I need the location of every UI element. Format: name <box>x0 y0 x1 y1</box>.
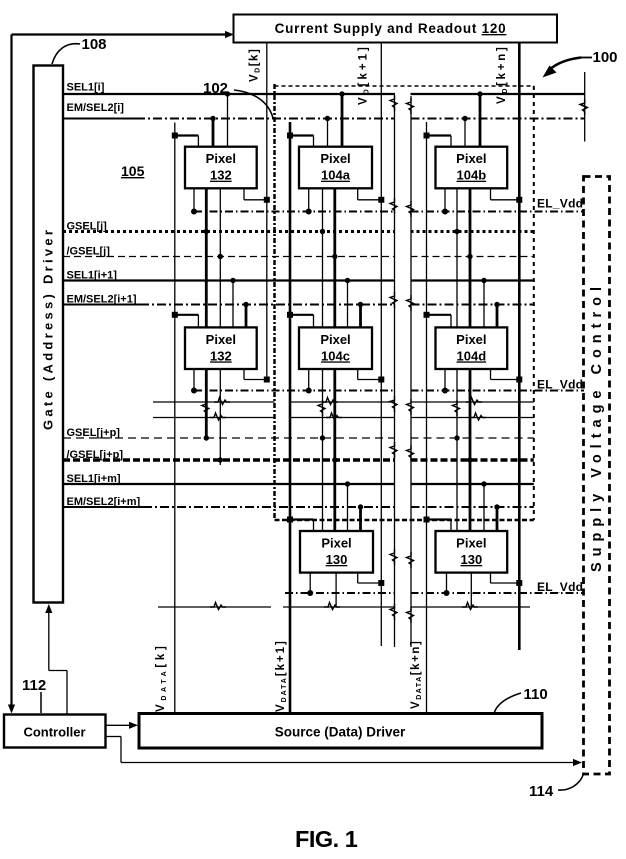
svg-text:132: 132 <box>210 168 232 183</box>
wire /GSEL[j+p] link col k <box>219 368 221 465</box>
wire controller feedback to supply control <box>106 736 122 738</box>
wire VD[k+1] <box>380 43 382 647</box>
wire monitor jog row2 col k <box>243 368 245 379</box>
right edge break bar <box>584 72 586 142</box>
wire GSEL[j+p] link col k <box>205 368 208 438</box>
zigzags on tear pair <box>390 95 397 111</box>
pixel 104c row2 col k+1 <box>299 327 372 369</box>
block Source (Data) Driver <box>139 714 542 749</box>
svg-text:FIG. 1: FIG. 1 <box>295 826 358 852</box>
wire EL stub row3 col k1 <box>309 572 311 593</box>
wire EL_Vdd row1 <box>194 211 395 213</box>
wire controller to current-supply bus <box>12 33 231 35</box>
wire /GSEL[j+p] link col k1 <box>333 368 336 531</box>
svg-text:Controller: Controller <box>23 725 85 740</box>
svg-text:Supply Voltage Control: Supply Voltage Control <box>589 287 605 572</box>
wire SEL1[i] <box>63 93 395 95</box>
svg-text:VD[k]: VD[k] <box>249 48 262 82</box>
wire monitor jog row2 col k1 <box>357 368 359 379</box>
wire VDATA[k+1] <box>289 122 292 714</box>
wire SEL stub row1 col kn <box>479 94 482 147</box>
svg-text:Pixel: Pixel <box>320 151 350 166</box>
svg-text:Source (Data) Driver: Source (Data) Driver <box>275 725 406 740</box>
wire EM/SEL2[i+m] <box>63 506 143 508</box>
array bottom broken line <box>158 606 271 608</box>
wire EM stub row2 col k1 <box>359 305 362 328</box>
wire monitor jog row1 col k <box>243 189 245 200</box>
wire EM stub row1 col k <box>212 119 215 147</box>
svg-text:105: 105 <box>121 163 145 179</box>
svg-text:104a: 104a <box>321 168 351 183</box>
svg-text:EL_Vdd: EL_Vdd <box>537 580 583 594</box>
arrowhead into Gate Driver bottom <box>45 604 52 613</box>
svg-text:/GSEL[j]: /GSEL[j] <box>67 246 111 258</box>
pixel 130 row3 col k+1 <box>300 531 373 573</box>
svg-text:108: 108 <box>82 36 107 53</box>
wire GSEL[j] <box>63 230 395 233</box>
svg-text:EM/SEL2[i+1]: EM/SEL2[i+1] <box>67 294 137 306</box>
svg-text:VDATA[k+n]: VDATA[k+n] <box>410 640 423 709</box>
wire /GSEL[j] <box>63 256 395 258</box>
wire SEL stub row2 col kn <box>483 281 485 328</box>
wire SEL stub row3 col kn <box>483 484 485 531</box>
zigzag breaks on bottom line <box>210 603 226 610</box>
wire EM stub row3 col k1 <box>359 507 362 531</box>
wire GSEL link row1-row2 col kn <box>456 189 458 328</box>
tear band top line <box>153 401 275 403</box>
wire EM/SEL2[i] <box>63 118 136 120</box>
dashed region 102 top edge <box>275 85 534 87</box>
wire EM/SEL2[i+1] <box>63 304 140 306</box>
wire EL stub row1 col k1 <box>308 189 310 212</box>
tear pair vertical right <box>410 96 412 647</box>
wire SEL stub row3 col k1 <box>347 484 349 531</box>
svg-text:104c: 104c <box>321 348 350 363</box>
wire EM stub row1 col kn <box>464 119 466 147</box>
svg-text:Pixel: Pixel <box>321 536 351 551</box>
arrowhead into Supply Voltage Control <box>573 759 582 766</box>
svg-text:VD[k+n]: VD[k+n] <box>496 46 509 104</box>
wire EM stub row3 col kn <box>496 507 499 531</box>
wire VD[k+n] <box>518 43 521 651</box>
wire SEL stub row2 col k <box>232 281 234 328</box>
svg-text:Pixel: Pixel <box>456 536 486 551</box>
wire GSEL[j+p] link col kn <box>456 368 458 531</box>
wire bottom stub row3 col k1 <box>335 572 337 607</box>
svg-text:/GSEL[j+p]: /GSEL[j+p] <box>67 449 124 461</box>
svg-text:130: 130 <box>460 552 482 567</box>
svg-text:GSEL[j]: GSEL[j] <box>67 221 108 233</box>
wire SEL1[i+m] <box>63 483 395 485</box>
node VDATA jog row1 col k <box>175 134 199 136</box>
wire SEL stub row1 col k1 <box>341 94 344 147</box>
svg-text:Current Supply and Readout 120: Current Supply and Readout 120 <box>275 21 507 36</box>
wire EL stub row2 col kn <box>444 368 446 390</box>
tear band bottom line <box>153 417 275 419</box>
wire GSEL[j+p] <box>63 437 395 439</box>
wire monitor jog row3 col k1 <box>357 572 359 583</box>
svg-text:130: 130 <box>326 552 348 567</box>
wire SEL1[i+1] <box>63 279 395 281</box>
wire SEL stub row2 col k1 <box>347 281 349 328</box>
wire /GSEL link row1-row2 col k1 <box>333 189 336 328</box>
pixel 132 row1 col k <box>185 147 257 189</box>
wire EM stub row1 col k1 <box>327 119 329 147</box>
block Controller <box>4 715 106 748</box>
wire EL stub row1 col kn <box>444 189 446 212</box>
node VDATA jog row2 col k1 <box>290 314 314 316</box>
pixel 104b row1 col k+n <box>436 147 508 189</box>
svg-text:Pixel: Pixel <box>206 151 236 166</box>
block Gate (Address) Driver <box>34 66 64 603</box>
tear pair vertical left <box>394 96 396 647</box>
wire EL stub row2 col k <box>193 368 195 390</box>
wire monitor jog row1 col kn <box>490 189 492 200</box>
svg-text:110: 110 <box>524 686 548 703</box>
wire /GSEL[j+p] link col kn <box>469 368 472 531</box>
wire EL stub row3 col kn <box>446 572 448 593</box>
zigzag breaks on tear band <box>214 398 230 405</box>
dashed region 102 right edge <box>533 86 535 520</box>
svg-text:SEL1[i]: SEL1[i] <box>67 82 105 94</box>
wire bottom stub row3 col kn <box>470 572 472 607</box>
svg-text:100: 100 <box>593 49 618 66</box>
wire gate driver control <box>48 610 50 671</box>
svg-text:Pixel: Pixel <box>320 332 350 347</box>
wire GSEL link row1-row2 col k <box>205 189 208 328</box>
svg-text:112: 112 <box>22 677 46 694</box>
wire monitor jog row3 col kn <box>490 572 492 583</box>
node VDATA jog row2 col k <box>175 314 199 316</box>
arrowhead into Source Driver <box>129 722 138 729</box>
svg-text:Pixel: Pixel <box>206 332 236 347</box>
wire VDATA[k] <box>174 123 176 714</box>
svg-text:132: 132 <box>210 348 232 363</box>
pixel 104d row2 col k+n <box>436 327 508 369</box>
svg-text:VD[k+1]: VD[k+1] <box>358 46 371 105</box>
node VDATA jog row1 col kn <box>427 134 452 136</box>
svg-text:104b: 104b <box>457 168 487 183</box>
wire EM stub row2 col k <box>245 305 248 328</box>
svg-text:104d: 104d <box>457 348 487 363</box>
svg-text:EM/SEL2[i+m]: EM/SEL2[i+m] <box>67 496 141 508</box>
svg-text:EL_Vdd: EL_Vdd <box>537 378 583 392</box>
wire GSEL link row1-row2 col k1 <box>322 189 324 328</box>
svg-text:EM/SEL2[i]: EM/SEL2[i] <box>67 102 125 114</box>
dashed region 102 bottom edge <box>275 519 534 522</box>
block Current Supply and Readout 120 <box>234 15 558 43</box>
arrowhead into Current Supply box <box>225 31 234 38</box>
pixel 104a row1 col k+1 <box>299 147 372 189</box>
wire monitor jog row1 col k1 <box>357 189 359 200</box>
node VDATA jog row2 col kn <box>427 314 452 316</box>
wire GSEL[j+p] link col k1 <box>322 368 324 531</box>
svg-text:VDATA[k]: VDATA[k] <box>155 645 168 712</box>
wire SEL stub row1 col k <box>227 94 229 147</box>
svg-text:VDATA[k+1]: VDATA[k+1] <box>275 640 288 712</box>
svg-text:Pixel: Pixel <box>456 151 486 166</box>
dashed region 102 left edge <box>273 84 276 520</box>
wire /GSEL link row1-row2 col k <box>219 189 221 328</box>
wire monitor jog row2 col kn <box>490 368 492 379</box>
svg-text:EL_Vdd: EL_Vdd <box>537 197 583 211</box>
wire /GSEL link row1-row2 col kn <box>469 189 472 328</box>
arrowhead into Controller top <box>8 705 15 714</box>
wire EM stub row2 col kn <box>496 305 499 328</box>
svg-text:102: 102 <box>203 80 228 97</box>
svg-text:Pixel: Pixel <box>456 332 486 347</box>
Supply Voltage Control dashed box <box>584 177 610 775</box>
node VDATA jog row3 col k1 <box>290 518 314 520</box>
svg-text:SEL1[i+m]: SEL1[i+m] <box>67 473 121 485</box>
wire EL_Vdd row2 <box>194 390 395 392</box>
pixel 130 row3 col k+n <box>436 531 508 573</box>
svg-text:SEL1[i+1]: SEL1[i+1] <box>67 270 118 282</box>
wire VDATA[k+n] <box>426 122 428 714</box>
svg-text:114: 114 <box>529 783 554 800</box>
wire controller to source driver <box>106 724 131 726</box>
svg-text:GSEL[j+p]: GSEL[j+p] <box>67 427 121 439</box>
pixel 132 row2 col k <box>185 327 257 369</box>
wire EL stub row1 col k <box>193 189 195 212</box>
wire VD[k] <box>266 43 268 381</box>
node VDATA jog row1 col k1 <box>290 134 314 136</box>
wire EL stub row2 col k1 <box>308 368 310 390</box>
wire EL_Vdd row3 <box>285 592 395 594</box>
wire /GSEL[j+p] <box>63 458 395 462</box>
node VDATA jog row3 col kn <box>427 518 452 520</box>
